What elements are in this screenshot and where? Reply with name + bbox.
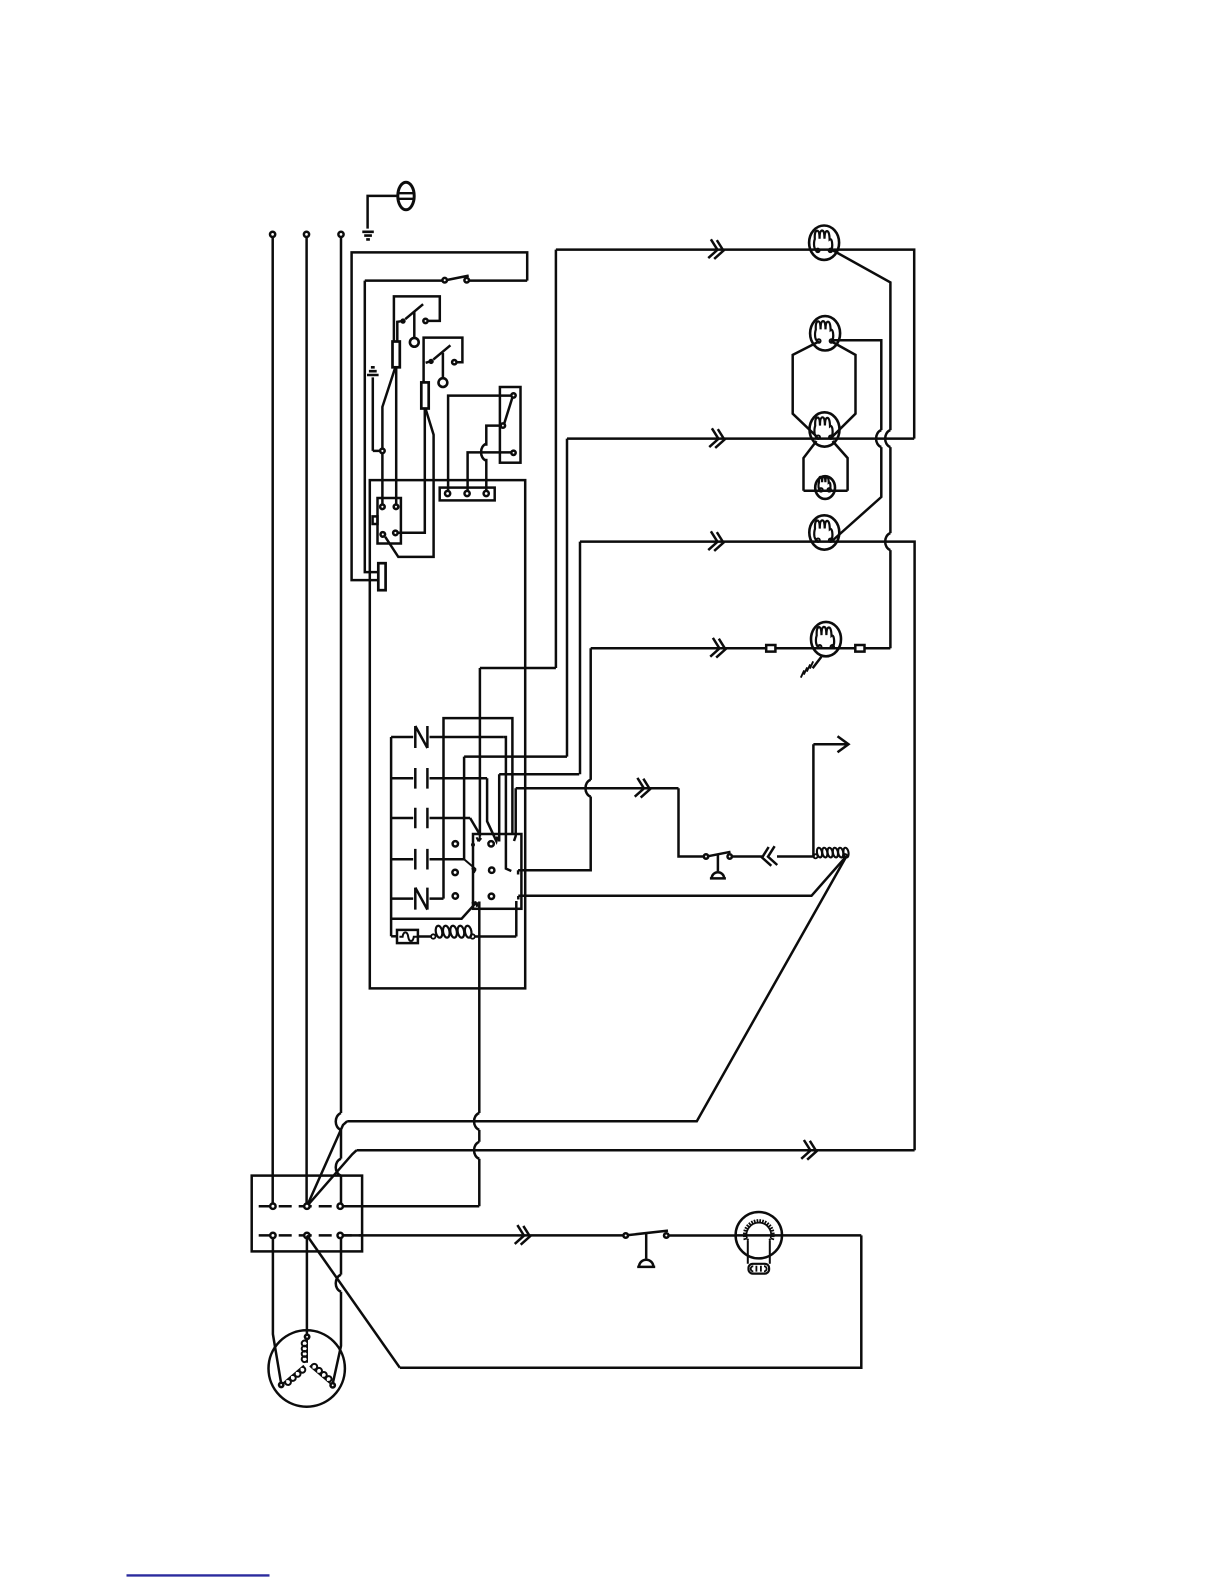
ground symbol G1 <box>362 232 374 240</box>
wire row3 bend into block <box>470 818 479 834</box>
wire B <box>307 1150 915 1206</box>
wire M3 trapezoid to M4 right <box>833 441 848 491</box>
connector chevron (reversed) before coil <box>761 846 778 867</box>
wire C row2 to SW5 <box>343 1234 624 1237</box>
TB row1 dashed <box>259 1205 362 1208</box>
motor M1 (burner fan) <box>809 226 839 260</box>
K terminals right column <box>488 841 493 846</box>
footer rule <box>127 1574 270 1576</box>
TB terminal <box>270 1204 275 1209</box>
connector chevron on W6 <box>710 638 727 659</box>
wire SW3 top to strip <box>448 396 511 491</box>
indicator lamp <box>398 182 414 210</box>
wire vertical from W1 corner down <box>480 250 556 837</box>
wire bridge 774 <box>499 774 579 841</box>
NO contact row2 <box>391 777 487 780</box>
connector chevron on wire C <box>515 1225 532 1246</box>
wire 788 run <box>514 788 679 841</box>
wire M2 right to V881 <box>832 340 881 430</box>
terminal box TB <box>252 1176 362 1252</box>
wire lamp to ground <box>368 196 398 229</box>
fuse F2 <box>421 382 428 408</box>
wire TB row1 right to V479 <box>343 1205 479 1208</box>
arrow symbol (to remote) <box>813 736 848 752</box>
wire W4 <box>804 490 848 493</box>
K bottom wire and arm <box>391 902 477 919</box>
relay RB body <box>378 498 401 544</box>
vertical V479 lower with hops <box>478 902 481 1114</box>
NO contact row3 <box>391 817 470 820</box>
wire SW3 mid to strip (with hop) <box>486 426 500 446</box>
connector chevron on wire B <box>801 1140 818 1161</box>
TB terminal <box>270 1233 275 1238</box>
supply terminal L3 <box>338 232 343 237</box>
fuse F4 on W6 <box>855 645 864 652</box>
motor M4 (aux) <box>815 476 835 499</box>
control board enclosure box <box>370 480 525 988</box>
contactor K left rail <box>390 737 393 936</box>
motor M6 <box>811 622 841 656</box>
relay coil H1 <box>813 854 817 858</box>
wire M2 right diagonal loop to M3 <box>832 342 855 437</box>
TB terminal <box>304 1233 309 1238</box>
vertical from W1 into block with arrow <box>477 837 482 842</box>
wire F2 to relay (straight) <box>398 409 425 533</box>
TB row2 dashed <box>259 1234 362 1237</box>
chassis ground at M6 <box>813 657 822 669</box>
NC contact row5 <box>391 897 443 900</box>
contactor K body <box>473 834 521 909</box>
supply terminal L2 <box>304 232 309 237</box>
wire W1 top run to motor M1 <box>556 250 914 439</box>
motor M7 (3-phase) <box>269 1330 345 1406</box>
wire L1 vertical <box>271 237 274 1203</box>
ignition coil row <box>418 935 432 938</box>
TB terminal <box>338 1204 343 1209</box>
connector chevron on W1 <box>708 239 725 260</box>
switch SW1 (thermostat contact) <box>394 296 440 341</box>
wire bridge 756 <box>464 757 567 860</box>
wire SW3 bottom to strip <box>468 452 512 491</box>
wire row4 to arrow <box>464 859 476 873</box>
node: junction circle on fuse feed <box>380 449 385 454</box>
supply terminal L1 <box>270 232 275 237</box>
NC contact row1 <box>391 736 504 739</box>
wire M2 left diagonal loop to M3 <box>793 342 819 437</box>
switch SW4 riser <box>679 788 704 856</box>
wire L3 vertical with crossover hops <box>340 237 343 1113</box>
wire W5 run to motor M5 <box>580 542 915 1151</box>
wire row2 bend into block <box>487 778 497 841</box>
connector chevron on burner wire <box>635 778 652 799</box>
wire TB row2 down legs <box>273 1238 281 1383</box>
fuse F3 on W6 <box>766 645 775 652</box>
wire diagonal TB to bottom loop <box>307 1235 400 1367</box>
switch SW2 (thermostat contact) <box>424 338 463 383</box>
wire coil to wire A (long diagonal) <box>347 858 845 1121</box>
motor M2 (pump) <box>810 316 840 350</box>
fuse F1 <box>393 342 400 368</box>
wire W3 run to motor M3 <box>567 437 914 440</box>
connector chevron on W3 <box>709 428 726 449</box>
wire vertical W6 corner down with hop <box>589 648 592 780</box>
wire F1 to relay terminal <box>395 367 398 504</box>
wire M1 diagonal to V890 <box>832 250 890 430</box>
wire to resistor R1 upper <box>365 281 379 572</box>
motor M8 (fan with brushes) <box>736 1212 782 1258</box>
switch S0 <box>365 279 527 282</box>
wire M3 trapezoid to M4 left <box>804 441 817 491</box>
wire bridge row1-top <box>444 718 513 899</box>
wire F2 diagonal to contact arm riser <box>385 410 433 557</box>
motor M5 <box>809 515 839 549</box>
wire W6 run to motor M6 <box>591 647 891 650</box>
relay terminals <box>380 505 385 510</box>
connector chevron on W5 <box>708 531 725 552</box>
wire L2 vertical <box>305 237 308 1203</box>
ignition unit (sine box) <box>391 935 397 938</box>
ground symbol G2 <box>367 367 379 375</box>
switch SW5 (door switch) <box>623 1233 628 1238</box>
wire outer box top/left <box>352 252 528 580</box>
resistor R1 <box>378 563 385 590</box>
motor M3 (compressor) <box>810 412 840 446</box>
wire A (to coil) <box>307 1121 347 1206</box>
switch SW4 (pressure switch) <box>704 854 708 858</box>
TB terminal <box>304 1204 309 1209</box>
TB terminal <box>338 1233 343 1238</box>
junction dot on K edge <box>471 843 475 847</box>
wire bottom loop <box>400 1235 862 1367</box>
wire coil to block row (short diagonal) <box>518 858 844 896</box>
wire row1 corner down <box>504 737 512 871</box>
switch SW3 (selector) body <box>500 387 521 463</box>
K terminals left column <box>453 841 458 846</box>
terminal strip TS <box>440 488 495 501</box>
NO contact row4 <box>391 858 464 861</box>
